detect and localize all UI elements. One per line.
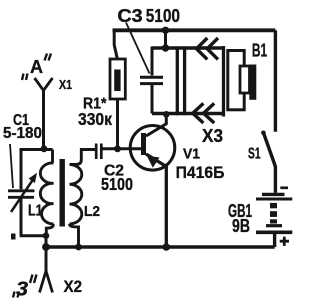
battery long plate bottom — [256, 231, 292, 235]
C3 label leader — [126, 23, 150, 74]
switch S1 blade — [263, 132, 275, 167]
C1 label leader — [10, 144, 13, 188]
resistor R1 lead top — [114, 29, 117, 60]
wire C1 bottom lead — [20, 197, 23, 235]
transistor V1 emitter — [146, 154, 166, 247]
V1 label — [176, 145, 225, 182]
minus label — [280, 186, 288, 189]
capacitor C3 plates — [140, 77, 163, 83]
wire box bottom — [152, 112, 224, 116]
C1 label — [3, 112, 42, 142]
node second rail — [162, 44, 169, 51]
R1 label — [78, 96, 112, 130]
wire tank bottom — [20, 234, 46, 237]
node tank bottom — [43, 232, 50, 239]
svg-text:L1: L1 — [28, 203, 43, 220]
wire top rail — [113, 28, 276, 32]
C2 label — [101, 163, 133, 195]
battery dashed middle — [270, 203, 277, 208]
ground label „З" — [16, 279, 28, 301]
ground closing quote — [30, 275, 37, 284]
svg-text:X3: X3 — [202, 125, 223, 146]
L2 label — [84, 203, 100, 220]
capacitor C2 plates — [96, 144, 101, 160]
antenna opening quote — [22, 74, 28, 81]
wire right side down — [274, 30, 277, 131]
L1 label — [28, 203, 43, 220]
X1 label — [59, 77, 72, 92]
connector X3 socket bars left — [177, 46, 184, 115]
ground rail — [46, 245, 275, 249]
earphone B1 membrane bar — [249, 65, 256, 100]
transistor V1 circle — [130, 126, 175, 171]
battery GB1 minus plate — [262, 193, 285, 196]
transistor V1 emitter arrow — [147, 156, 160, 168]
X2 label — [64, 277, 83, 296]
svg-text:П416Б: П416Б — [176, 164, 225, 182]
inductor L1 — [40, 150, 53, 236]
terminal X2 lead — [45, 247, 48, 271]
node collector — [163, 111, 170, 118]
wire battery to rail — [273, 232, 276, 247]
inductor L2 — [70, 150, 96, 248]
svg-text:B1: B1 — [252, 40, 267, 61]
terminal X1 antenna fork — [35, 78, 53, 91]
connector X3 plug arrows bottom — [193, 103, 215, 123]
svg-text:А: А — [30, 57, 43, 77]
X3 label — [202, 125, 223, 146]
ground opening quote — [13, 292, 19, 298]
svg-text:9В: 9В — [232, 216, 250, 236]
terminal X2 fork — [40, 271, 53, 293]
wire junction drop — [45, 236, 48, 247]
wire C2 to base — [103, 147, 142, 150]
wire S1 to battery — [274, 166, 277, 193]
capacitor C1 plates — [8, 191, 35, 198]
svg-text:S1: S1 — [248, 146, 261, 163]
B1 label — [252, 40, 267, 61]
node top rail — [162, 27, 169, 34]
stray ink mark — [11, 234, 16, 240]
svg-text:5100: 5100 — [101, 174, 133, 194]
capacitor C1 arrow — [11, 180, 33, 213]
svg-text:X1: X1 — [59, 77, 72, 92]
antenna label „А" — [30, 57, 43, 77]
battery GB1 long plate top — [256, 198, 292, 201]
node ground rail left — [42, 243, 50, 251]
transistor V1 collector — [146, 114, 166, 137]
plus label — [280, 237, 289, 246]
earphone B1 body — [228, 51, 244, 110]
wire C3 bottom lead — [151, 85, 154, 114]
wire second rail — [152, 46, 224, 50]
battery short plate bottom — [266, 224, 282, 227]
svg-text:330к: 330к — [78, 109, 112, 129]
S1 label — [248, 146, 261, 163]
antenna closing quote — [45, 54, 52, 61]
wire C1 top lead — [20, 148, 23, 189]
resistor R1 body — [110, 59, 125, 99]
wire antenna down — [42, 91, 45, 150]
svg-text:5-180: 5-180 — [3, 125, 42, 142]
connector X3 plug arrows top — [197, 38, 219, 59]
svg-text:L2: L2 — [84, 203, 100, 220]
GB1 label — [228, 201, 252, 236]
svg-text:X2: X2 — [64, 277, 83, 296]
resistor R1 inner mark — [114, 70, 120, 92]
transistor V1 base bar — [141, 133, 146, 155]
node base/R1 — [114, 145, 121, 152]
svg-text:5100: 5100 — [146, 5, 180, 26]
connector X3 socket bar right — [222, 46, 225, 117]
node antenna/C1/L1 — [41, 145, 48, 152]
node L2 ground — [75, 244, 82, 251]
svg-text:C3: C3 — [117, 5, 142, 26]
svg-text:V1: V1 — [183, 145, 200, 162]
transformer core — [60, 159, 65, 227]
resistor R1 lead bottom — [116, 99, 119, 149]
node emitter/ground — [163, 243, 171, 251]
wire tank top — [21, 148, 53, 151]
C3 label — [117, 5, 180, 26]
wire C3 top lead — [151, 47, 154, 76]
earphone B1 cap — [240, 66, 250, 93]
wire rail connector — [164, 30, 167, 48]
